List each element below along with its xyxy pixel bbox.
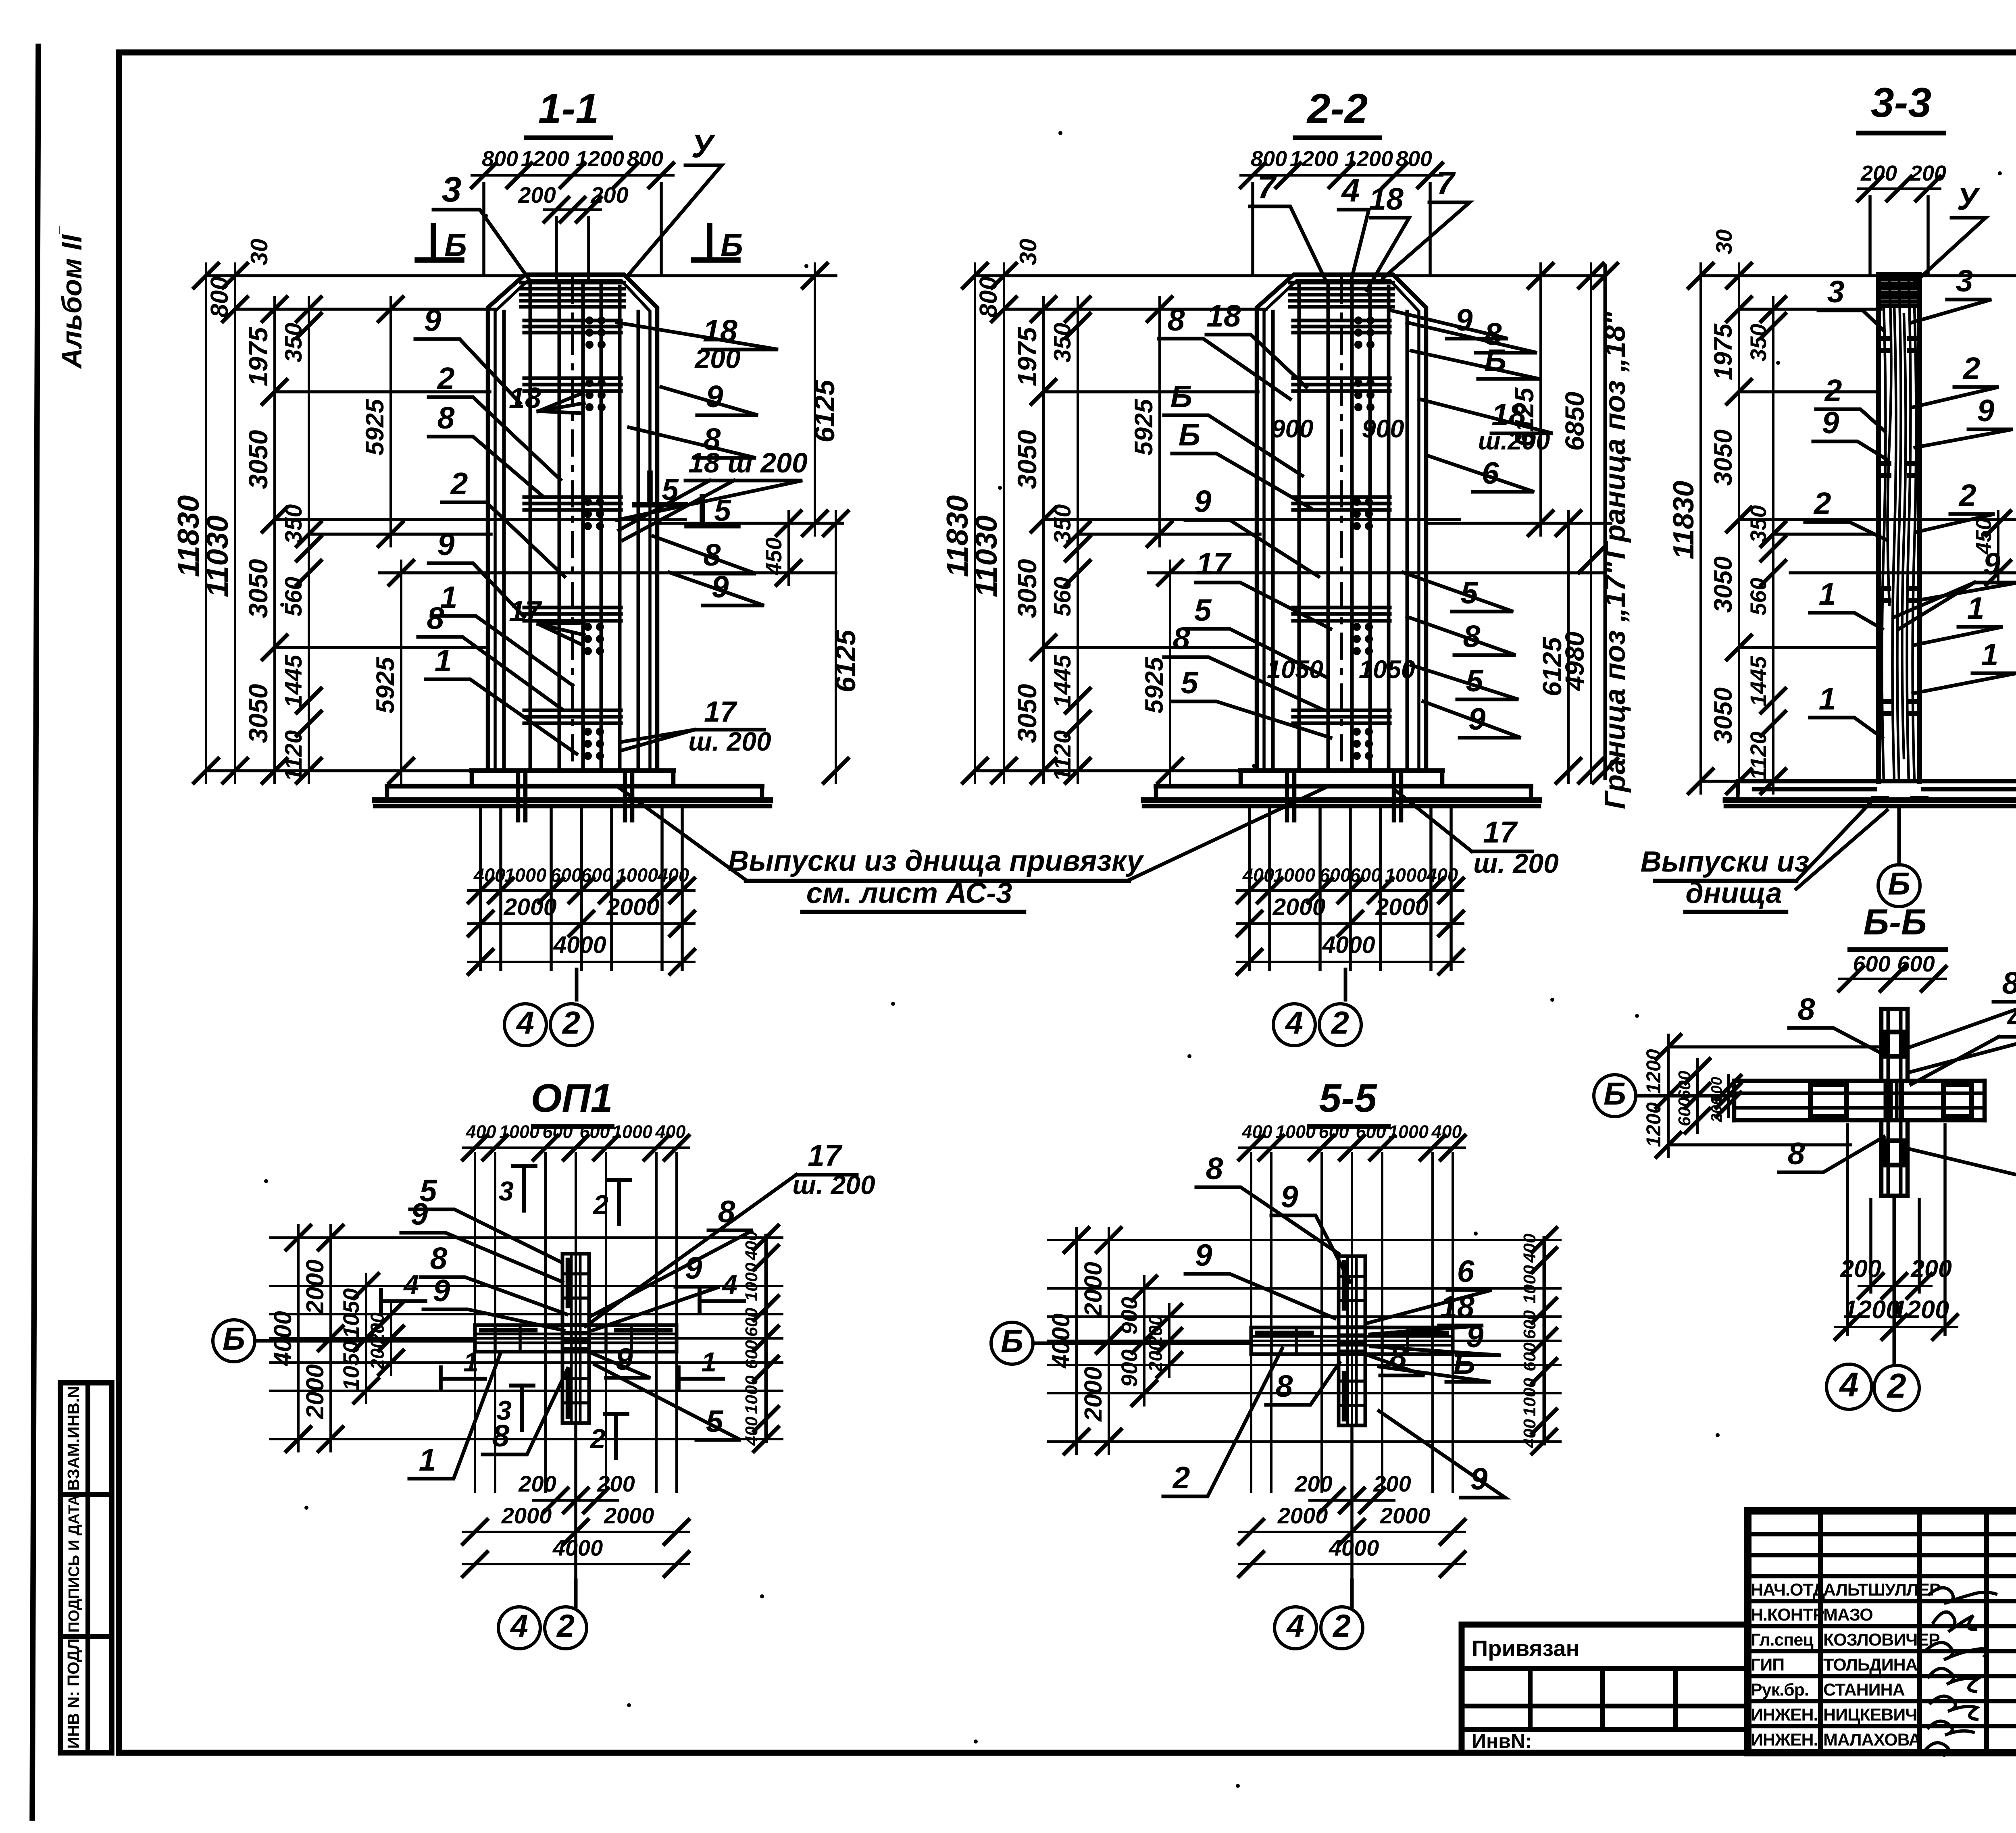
svg-text:5925: 5925 [361, 399, 389, 456]
B-B left dims [1667, 1035, 1670, 1157]
svg-text:600: 600 [1520, 1342, 1539, 1371]
svg-text:2000: 2000 [501, 1503, 552, 1528]
svg-text:5: 5 [1194, 593, 1212, 628]
svg-text:1000: 1000 [742, 1263, 761, 1301]
svg-text:18 ш 200: 18 ш 200 [688, 447, 808, 479]
svg-text:1445: 1445 [280, 654, 307, 707]
plan ОП1 center hatch [564, 1323, 587, 1326]
svg-text:1000: 1000 [1520, 1378, 1539, 1417]
left margin line [32, 46, 38, 1818]
svg-text:1050: 1050 [338, 1341, 364, 1391]
svg-text:2: 2 [1962, 351, 1981, 386]
B-B axis line down [1893, 1196, 1896, 1365]
svg-text:2: 2 [1172, 1461, 1190, 1495]
svg-text:5-5: 5-5 [1319, 1076, 1377, 1120]
svg-text:17: 17 [704, 696, 737, 728]
svg-text:2-2: 2-2 [1306, 85, 1368, 132]
svg-text:600: 600 [1853, 951, 1890, 976]
svg-text:4: 4 [403, 1269, 419, 1300]
svg-text:11030: 11030 [200, 516, 234, 597]
svg-text:4: 4 [516, 1005, 534, 1040]
svg-text:3: 3 [498, 1176, 514, 1207]
svg-text:1445: 1445 [1745, 656, 1771, 706]
plan 5-5 top dim chain [1239, 1146, 1465, 1149]
svg-text:ш. 200: ш. 200 [792, 1170, 875, 1200]
svg-text:4000: 4000 [1322, 932, 1375, 958]
svg-text:Альбом II: Альбом II [56, 234, 87, 369]
B-B cross horizontal bar [1734, 1079, 1985, 1083]
granitsa poz labels [1604, 266, 1607, 778]
section 3-3 base anchors [1871, 796, 1889, 801]
svg-text:8: 8 [1798, 992, 1815, 1027]
svg-text:8: 8 [1276, 1369, 1293, 1404]
svg-text:400: 400 [1426, 864, 1458, 886]
svg-text:200: 200 [1373, 1471, 1411, 1496]
svg-text:2000: 2000 [1277, 1503, 1328, 1528]
svg-text:200: 200 [1910, 161, 1946, 185]
svg-text:3: 3 [1827, 275, 1845, 309]
svg-text:ш.200: ш.200 [1478, 427, 1550, 455]
section 2-2 dowel outlets [1285, 773, 1289, 820]
svg-text:Б: Б [1001, 1323, 1023, 1359]
plan ОП1 bottom dims [574, 1423, 577, 1580]
section 2-2 rebar dots [1354, 316, 1362, 325]
svg-text:Выпуски из днища привязку: Выпуски из днища привязку [728, 845, 1144, 877]
plan ОП1 cross slab vertical [562, 1254, 589, 1423]
svg-text:1050: 1050 [1359, 655, 1415, 684]
axis circle 4 under 1-1 [504, 1004, 546, 1046]
svg-text:600: 600 [1318, 1121, 1349, 1142]
svg-text:ПОДПИСЬ И ДАТА: ПОДПИСЬ И ДАТА [66, 1495, 83, 1633]
axis circle 4 under B-B [1826, 1364, 1872, 1409]
svg-text:3: 3 [442, 169, 462, 209]
svg-text:900: 900 [1116, 1297, 1142, 1334]
plan ОП1 left dim chains [297, 1225, 300, 1451]
svg-text:2: 2 [1824, 373, 1842, 408]
svg-text:11030: 11030 [969, 516, 1003, 597]
svg-text:4: 4 [1286, 1608, 1304, 1644]
svg-text:1: 1 [701, 1347, 716, 1377]
svg-text:Рук.бр.: Рук.бр. [1751, 1680, 1809, 1700]
svg-text:2: 2 [1332, 1608, 1351, 1644]
svg-text:350: 350 [1745, 505, 1771, 543]
svg-text:400: 400 [1520, 1234, 1539, 1263]
left margin stamp boxes [60, 1383, 112, 1753]
svg-text:АЛЬТШУЛЛЕР: АЛЬТШУЛЛЕР [1823, 1580, 1941, 1600]
svg-text:400: 400 [1431, 1121, 1462, 1142]
plan ОП1 right rotated chain [764, 1236, 768, 1441]
svg-text:200: 200 [597, 1471, 635, 1496]
svg-text:7: 7 [1436, 165, 1456, 202]
svg-text:6: 6 [1457, 1254, 1475, 1289]
svg-text:2: 2 [592, 1190, 608, 1220]
svg-text:3050: 3050 [243, 684, 273, 743]
plan ОП1 cross slab horizontal [475, 1325, 677, 1352]
svg-text:30: 30 [1015, 239, 1041, 265]
svg-text:1445: 1445 [1049, 654, 1076, 707]
svg-text:800: 800 [1396, 147, 1432, 171]
axis circle 4 under 2-2 [1273, 1004, 1315, 1046]
section 1-1 bottom grid verticals [479, 808, 482, 970]
svg-text:3050: 3050 [1709, 556, 1737, 613]
svg-text:560: 560 [1049, 577, 1076, 617]
svg-text:7: 7 [1257, 169, 1277, 206]
svg-text:Граница поз „18": Граница поз „18" [1599, 311, 1631, 559]
svg-text:9: 9 [1983, 547, 2001, 581]
svg-text:800: 800 [1251, 147, 1287, 171]
svg-text:3050: 3050 [1012, 559, 1042, 618]
svg-text:4000: 4000 [553, 932, 606, 958]
svg-text:1: 1 [463, 1347, 479, 1377]
svg-text:Б: Б [1888, 866, 1910, 901]
svg-text:ГИП: ГИП [1751, 1655, 1784, 1675]
svg-text:4980: 4980 [1560, 631, 1589, 691]
section 3-3 left dims [1699, 264, 1702, 793]
svg-text:4: 4 [1285, 1005, 1303, 1040]
plan 5-5 cross slab vertical [1339, 1256, 1365, 1425]
svg-text:600: 600 [550, 864, 582, 886]
svg-text:17: 17 [1196, 547, 1232, 581]
svg-text:МАЛАХОВА: МАЛАХОВА [1823, 1730, 1921, 1750]
svg-text:см. лист АС-3: см. лист АС-3 [806, 877, 1012, 909]
svg-text:2: 2 [450, 466, 468, 501]
svg-text:350: 350 [1745, 324, 1771, 361]
svg-text:МАЗО: МАЗО [1823, 1605, 1873, 1625]
svg-text:1975: 1975 [243, 327, 273, 386]
svg-text:НАЧ.ОТД: НАЧ.ОТД [1751, 1580, 1825, 1600]
svg-text:1: 1 [1819, 577, 1836, 612]
svg-text:1000: 1000 [504, 864, 547, 886]
svg-text:1000: 1000 [1388, 1121, 1429, 1142]
svg-text:18: 18 [509, 382, 541, 414]
svg-text:1: 1 [1819, 682, 1836, 716]
svg-text:1000: 1000 [1520, 1265, 1539, 1304]
svg-text:8: 8 [2002, 966, 2016, 1001]
svg-text:200: 200 [1294, 1471, 1332, 1496]
svg-text:200: 200 [1910, 1255, 1952, 1282]
svg-text:1000: 1000 [499, 1121, 539, 1142]
svg-text:1120: 1120 [1049, 730, 1076, 781]
svg-text:2: 2 [1813, 486, 1831, 521]
svg-text:2: 2 [1886, 1367, 1906, 1405]
section 2-2 center axis [1340, 279, 1343, 771]
svg-text:450: 450 [761, 537, 786, 575]
svg-text:200: 200 [518, 1471, 556, 1496]
B-B end blocks [1810, 1084, 1847, 1117]
svg-text:5: 5 [1181, 666, 1199, 700]
svg-text:200: 200 [367, 1338, 388, 1370]
svg-text:2: 2 [556, 1608, 575, 1644]
svg-text:1200: 1200 [1843, 1296, 1900, 1324]
section 2-2 stirrup clusters [1290, 281, 1393, 285]
section 1-1 bottom dim 400 1000 600 600 1000 400 [469, 889, 694, 892]
section 1-1 bottom dim 2000 2000 [469, 922, 694, 925]
section 1-1 stirrup clusters [521, 281, 624, 285]
svg-text:3050: 3050 [243, 430, 273, 489]
svg-text:1000: 1000 [1385, 864, 1427, 886]
svg-text:4: 4 [1341, 173, 1360, 209]
svg-text:ТОЛЬДИНА: ТОЛЬДИНА [1823, 1655, 1918, 1675]
section 3-3 top dim 200 200 [1858, 187, 1940, 190]
svg-text:4: 4 [721, 1269, 737, 1300]
section 2-2 right chains 6125 6850 [1539, 264, 1542, 535]
axis circle 2 under 2-2 [1319, 1004, 1361, 1046]
svg-text:560: 560 [1745, 578, 1771, 615]
plan 5-5 grid verticals [1250, 1153, 1252, 1492]
svg-text:2000: 2000 [1380, 1503, 1431, 1528]
svg-text:Б: Б [1170, 379, 1193, 414]
B-B top dim 600 600 [1839, 978, 1946, 980]
svg-text:6125: 6125 [830, 629, 861, 693]
svg-text:2000: 2000 [604, 1503, 654, 1528]
svg-text:4000: 4000 [1329, 1535, 1379, 1560]
svg-text:3: 3 [1956, 264, 1973, 298]
svg-text:400: 400 [657, 864, 689, 886]
section 1-1 horizontal extension lines [206, 274, 836, 277]
svg-text:400: 400 [742, 1231, 761, 1261]
svg-text:200: 200 [1145, 1340, 1166, 1372]
svg-text:2000: 2000 [301, 1364, 329, 1419]
svg-text:3050: 3050 [1012, 684, 1042, 743]
svg-text:400: 400 [465, 1121, 496, 1142]
svg-text:Б-Б: Б-Б [1863, 902, 1926, 943]
svg-text:3050: 3050 [1709, 687, 1737, 744]
section 1-1 top dimension 800 1200 1200 800 [472, 174, 673, 177]
section 2-2 base slab [1241, 768, 1442, 773]
svg-text:4000: 4000 [269, 1311, 296, 1367]
svg-text:400: 400 [473, 864, 505, 886]
svg-text:ВЗАМ.ИНВ.N:: ВЗАМ.ИНВ.N: [64, 1381, 83, 1491]
svg-text:1120: 1120 [1745, 732, 1771, 780]
svg-text:9: 9 [1194, 484, 1212, 519]
svg-text:600: 600 [1319, 864, 1351, 886]
svg-text:9: 9 [1822, 406, 1839, 440]
svg-text:30: 30 [1711, 229, 1737, 254]
svg-text:200: 200 [1840, 1255, 1881, 1282]
svg-text:Привязан: Привязан [1472, 1635, 1579, 1661]
svg-text:600: 600 [742, 1340, 761, 1369]
section 2-2 column outline [1257, 275, 1426, 771]
svg-text:9: 9 [1195, 1238, 1212, 1273]
svg-text:1200: 1200 [1290, 147, 1338, 171]
section 1-1 base slab [472, 768, 673, 773]
section 2-2 inner rebars [1271, 312, 1275, 771]
svg-text:9: 9 [411, 1197, 428, 1232]
section 3-3 bar dashes [1883, 336, 1889, 341]
privyazan box [1462, 1625, 1748, 1753]
svg-text:1200: 1200 [1345, 147, 1393, 171]
plan 5-5 cross slab horizontal [1251, 1327, 1453, 1354]
svg-text:8: 8 [1168, 303, 1185, 337]
section 1-1 inner rebars [502, 312, 506, 771]
section 3-3 axis line to circle [1897, 808, 1901, 865]
svg-text:2000: 2000 [1375, 894, 1428, 920]
svg-text:1975: 1975 [1709, 323, 1737, 380]
svg-text:900: 900 [1271, 415, 1313, 443]
section 3-3 column outline [1876, 275, 1881, 781]
plan ОП1 grid horizontals [270, 1236, 782, 1239]
svg-text:5925: 5925 [371, 657, 400, 714]
svg-text:900: 900 [1362, 415, 1404, 443]
svg-text:8: 8 [427, 601, 444, 636]
section 1-1 rebar dots [585, 316, 594, 325]
svg-text:1200: 1200 [521, 147, 569, 171]
section 3-3 inner bars [1882, 306, 1886, 781]
section 2-2 top dimension 800 1200 1200 800 [1241, 174, 1442, 177]
B-B center hatch [1884, 1084, 1887, 1117]
svg-text:6125: 6125 [809, 379, 840, 443]
svg-text:ИНВ N: ПОДЛ.: ИНВ N: ПОДЛ. [64, 1634, 83, 1749]
svg-text:2000: 2000 [606, 894, 659, 920]
scan speckles [484, 214, 488, 218]
svg-text:400: 400 [742, 1417, 761, 1446]
svg-text:2000: 2000 [1079, 1367, 1107, 1422]
svg-text:1050: 1050 [338, 1288, 364, 1339]
svg-text:2: 2 [562, 1005, 580, 1040]
axis circle 2 under 1-1 [550, 1004, 592, 1046]
svg-text:1200: 1200 [1893, 1296, 1949, 1324]
svg-text:9: 9 [437, 527, 455, 562]
svg-text:800: 800 [206, 277, 233, 318]
svg-text:Н.КОНТР: Н.КОНТР [1751, 1605, 1824, 1625]
svg-text:9: 9 [616, 1342, 633, 1377]
svg-text:600: 600 [1897, 951, 1935, 976]
plan 5-5 bottom dims [1350, 1425, 1354, 1580]
plan ОП1 grid verticals [474, 1153, 476, 1492]
svg-text:17: 17 [808, 1138, 843, 1172]
svg-text:600: 600 [581, 864, 612, 886]
plan 5-5 grid horizontals [1048, 1239, 1560, 1241]
svg-text:900: 900 [1116, 1349, 1142, 1387]
svg-text:9: 9 [685, 1251, 702, 1286]
svg-text:У: У [691, 128, 716, 164]
section 2-2 horizontal extension lines [975, 274, 1603, 277]
plan 5-5 left dim chains [1075, 1228, 1078, 1454]
svg-text:ш. 200: ш. 200 [1473, 848, 1559, 879]
svg-text:4000: 4000 [1047, 1313, 1075, 1369]
svg-text:200: 200 [590, 182, 628, 208]
svg-text:4: 4 [2007, 1001, 2016, 1036]
svg-text:ОП1: ОП1 [531, 1076, 612, 1120]
svg-text:1000: 1000 [616, 864, 658, 886]
svg-text:350: 350 [1049, 323, 1076, 363]
svg-text:350: 350 [280, 504, 307, 544]
svg-text:2: 2 [589, 1423, 606, 1454]
plan 5-5 right rotated chain [1543, 1238, 1546, 1444]
svg-text:1000: 1000 [612, 1121, 652, 1142]
svg-text:4: 4 [1839, 1366, 1858, 1404]
svg-text:1200: 1200 [1642, 1102, 1665, 1147]
svg-text:200: 200 [518, 182, 556, 208]
svg-text:9: 9 [1281, 1180, 1298, 1214]
svg-text:3050: 3050 [1012, 430, 1042, 489]
svg-text:3-3: 3-3 [1871, 79, 1931, 126]
svg-text:600: 600 [1356, 1121, 1386, 1142]
svg-text:НИЦКЕВИЧ: НИЦКЕВИЧ [1823, 1705, 1917, 1725]
svg-text:200: 200 [1860, 161, 1897, 185]
svg-text:350: 350 [1049, 504, 1076, 544]
svg-text:1: 1 [435, 643, 452, 678]
svg-text:1000: 1000 [1273, 864, 1316, 886]
svg-text:2: 2 [1331, 1005, 1349, 1040]
axis circle 2 under B-B [1874, 1365, 1919, 1411]
svg-text:2000: 2000 [503, 894, 556, 920]
svg-text:У: У [1957, 181, 1981, 216]
B-B cross vertical bar [1881, 1007, 1908, 1011]
svg-text:600: 600 [1675, 1097, 1694, 1126]
svg-text:8: 8 [492, 1419, 510, 1453]
svg-text:2000: 2000 [1079, 1262, 1107, 1317]
svg-text:Гл.спец: Гл.спец [1751, 1630, 1814, 1650]
section 2-2 bottom grid verticals [1248, 808, 1251, 970]
title block outer [1748, 1511, 2016, 1753]
svg-text:ИНЖЕН.: ИНЖЕН. [1751, 1730, 1818, 1750]
section 1-1 flag 5 left [647, 473, 653, 502]
svg-text:9: 9 [1977, 393, 1995, 428]
signature table [1748, 1511, 2016, 1753]
svg-text:ИНЖЕН.: ИНЖЕН. [1751, 1705, 1818, 1725]
svg-text:9: 9 [433, 1273, 450, 1308]
svg-text:600: 600 [579, 1121, 610, 1142]
svg-text:днища: днища [1685, 877, 1782, 909]
svg-text:2: 2 [1958, 478, 1976, 513]
svg-text:1000: 1000 [1275, 1121, 1316, 1142]
section 1-1 dowel outlets [516, 773, 521, 820]
section 1-1 dim 200 200 [544, 208, 601, 211]
svg-text:4000: 4000 [552, 1535, 603, 1560]
svg-text:1050: 1050 [1267, 655, 1323, 684]
svg-text:8: 8 [1206, 1151, 1223, 1186]
svg-text:600: 600 [742, 1308, 761, 1337]
svg-text:30: 30 [246, 239, 273, 265]
svg-text:18: 18 [1206, 299, 1241, 333]
svg-text:1: 1 [1981, 637, 1999, 672]
section 1-1 flag 5 right [700, 497, 705, 523]
section 1-1 secondary short chains [389, 297, 392, 546]
section 2-2 bottom dims [1237, 889, 1463, 892]
svg-text:Граница поз „17": Граница поз „17" [1599, 561, 1631, 809]
svg-text:18: 18 [1369, 182, 1404, 216]
svg-text:Б: Б [223, 1321, 245, 1357]
svg-text:1: 1 [419, 1443, 436, 1477]
svg-text:4: 4 [510, 1608, 528, 1644]
svg-text:СТАНИНА: СТАНИНА [1823, 1680, 1905, 1700]
svg-text:200: 200 [1708, 1096, 1725, 1122]
section 3-3 base slab [1738, 779, 2016, 784]
svg-text:17: 17 [1483, 815, 1518, 849]
section 1-1 right dim chains [814, 264, 816, 535]
svg-text:Выпуски из: Выпуски из [1641, 846, 1810, 878]
section 3-3 horizontal extensions [1701, 274, 2016, 277]
svg-text:9: 9 [706, 379, 723, 414]
svg-text:2000: 2000 [1272, 894, 1325, 920]
svg-text:1-1: 1-1 [538, 85, 599, 132]
section 2-2 secondary short chains [1158, 297, 1161, 546]
svg-text:5925: 5925 [1130, 399, 1158, 456]
svg-text:400: 400 [655, 1121, 685, 1142]
plan ОП1 section flags [522, 1166, 526, 1211]
section 1-1 center axis [571, 279, 574, 771]
svg-text:1200: 1200 [1642, 1049, 1665, 1094]
svg-text:400: 400 [1241, 1121, 1272, 1142]
svg-text:200: 200 [694, 343, 741, 374]
svg-text:3050: 3050 [1709, 429, 1737, 486]
svg-text:2: 2 [437, 361, 455, 396]
B-B bottom dims [1846, 1125, 1849, 1334]
svg-text:600: 600 [1675, 1071, 1694, 1100]
svg-text:400: 400 [1242, 864, 1274, 886]
signatures scribbles [1929, 1588, 1996, 1603]
